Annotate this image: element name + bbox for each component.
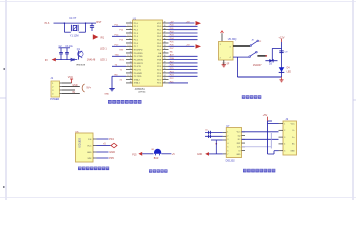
svg-text:15: 15 [130, 68, 132, 70]
capacitor C6 [205, 129, 210, 134]
svg-text:33: 33 [164, 45, 166, 47]
node junction sensor [216, 140, 218, 154]
port arrow 9V input [45, 58, 56, 62]
svg-text:TXD: TXD [115, 55, 120, 57]
svg-text:9V+: 9V+ [86, 85, 91, 89]
wire +12V vertical [281, 42, 283, 77]
capacitor C9 [279, 51, 288, 54]
svg-text:13: 13 [130, 62, 132, 64]
svg-text:8: 8 [130, 45, 131, 47]
svg-text:POWER: POWER [50, 98, 59, 101]
pin stubs voice module [93, 139, 97, 158]
svg-text:DS1302: DS1302 [226, 159, 236, 162]
power port VCC [68, 76, 73, 83]
wire U7 row3 short [242, 133, 272, 149]
wire GND row [62, 86, 80, 88]
svg-text:+5V: +5V [186, 45, 190, 47]
svg-text:26: 26 [164, 68, 166, 70]
svg-text:1: 1 [130, 22, 131, 24]
wires U1 right nets [169, 23, 198, 83]
svg-text:9: 9 [128, 55, 129, 57]
svg-text:1N4148: 1N4148 [87, 59, 96, 62]
transistor Q1 label [77, 49, 81, 51]
svg-text:P3.5/T1: P3.5/T1 [134, 69, 142, 71]
power port +5V (relay) [221, 31, 224, 42]
svg-text:36: 36 [164, 35, 166, 37]
svg-text:PSE: PSE [157, 59, 162, 61]
svg-text:(DIP40): (DIP40) [138, 92, 145, 94]
wire crystal top rail [64, 22, 85, 24]
wire sensor row2 [205, 135, 223, 137]
capacitor C2 [59, 48, 63, 60]
wire crystal right leg [85, 23, 87, 32]
svg-text:19: 19 [130, 82, 132, 84]
svg-text:GND: GND [72, 85, 77, 87]
mcu part number text [135, 88, 146, 94]
svg-text:GND: GND [109, 150, 115, 154]
net label LED1 lower [100, 59, 107, 62]
svg-text:17: 17 [130, 75, 132, 77]
wire filter top rail [59, 47, 71, 49]
wire sensor gnd row [209, 153, 223, 155]
wire switch lower out (thick) [257, 55, 267, 57]
capacitor C4 label [69, 17, 77, 20]
capacitor C2 label [59, 46, 63, 48]
svg-text:P3.3/INT1: P3.3/INT1 [134, 63, 144, 65]
net label 9V+ [86, 85, 91, 89]
pin stubs U1 left [126, 22, 133, 84]
pin stub relay bottom + ground [222, 60, 226, 67]
diode D3 1N4007 [265, 59, 277, 62]
wire sensor row1 [205, 132, 223, 134]
wire voice pin2 [97, 145, 111, 147]
svg-text:+5V: +5V [186, 21, 190, 23]
sheet zone mark B [3, 186, 5, 188]
sheet zone mark A [3, 68, 5, 70]
mcu U1 designator [133, 18, 137, 21]
svg-text:28: 28 [164, 62, 166, 64]
sheet zone tick left [0, 97, 6, 99]
wire VCC [62, 82, 72, 84]
wire diode up [272, 48, 281, 60]
ground (relay) [279, 77, 283, 82]
switch contact upper [250, 40, 258, 46]
svg-text:+5V: +5V [263, 113, 268, 117]
svg-text:39: 39 [164, 25, 166, 27]
relay model text [222, 63, 230, 65]
svg-text:5: 5 [227, 147, 228, 149]
svg-text:4: 4 [284, 144, 285, 146]
wire voice pin4 [97, 157, 109, 159]
svg-text:35: 35 [164, 38, 166, 40]
svg-text:VCC: VCC [87, 145, 92, 147]
connector J1 body [51, 81, 60, 97]
svg-text:27: 27 [164, 65, 166, 67]
svg-text:LED 1: LED 1 [100, 59, 107, 62]
svg-text:GND: GND [87, 152, 92, 154]
pin stubs J1 [60, 83, 63, 93]
net labels U1 left [115, 25, 129, 82]
connector J2 body [283, 121, 297, 155]
svg-text:P3.1/TXD: P3.1/TXD [134, 56, 143, 58]
svg-text:GND: GND [197, 154, 202, 156]
svg-text:1N4007: 1N4007 [253, 64, 262, 67]
pin stubs U7 right [242, 132, 246, 151]
wire +5V vertical (sensor) [268, 121, 273, 154]
net label buzzer P15 [132, 153, 137, 156]
capacitor C7 [209, 135, 211, 138]
net label LED1 upper [100, 48, 107, 51]
svg-text:RST: RST [96, 21, 101, 24]
svg-text:P34: P34 [109, 137, 114, 141]
svg-text:11: 11 [130, 55, 132, 57]
svg-text:VCC: VCC [157, 23, 162, 25]
svg-text:4: 4 [130, 32, 131, 34]
svg-text:4: 4 [230, 57, 231, 59]
svg-text:4: 4 [227, 143, 228, 145]
wire sensor row3 [211, 139, 223, 141]
wire U7 to J2 row1 [242, 131, 279, 133]
svg-text:25: 25 [164, 72, 166, 74]
svg-text:38: 38 [164, 28, 166, 30]
wire row4 [62, 92, 80, 94]
svg-text:SPK: SPK [87, 158, 92, 160]
part number text IRM [76, 64, 86, 66]
wires U1 left nets [112, 26, 126, 76]
voice module U6 body [76, 133, 94, 162]
svg-text:1: 1 [227, 132, 228, 134]
sheet border right [352, 0, 354, 200]
svg-text:GND: GND [104, 93, 109, 95]
svg-text:5: 5 [284, 151, 285, 153]
port arrow buzzer [138, 152, 142, 156]
pin stubs U1 right [163, 22, 169, 84]
relay U5 body [219, 42, 234, 61]
svg-text:RD: RD [115, 75, 119, 77]
svg-text:22: 22 [164, 82, 166, 84]
connector J2 designator [285, 117, 288, 121]
svg-text:9: 9 [130, 48, 131, 50]
svg-text:30: 30 [164, 55, 166, 57]
svg-text:23: 23 [164, 78, 166, 80]
capacitor C5 (reset) [90, 23, 94, 31]
wire row3 [62, 89, 75, 91]
net label +5V (crystal block) [45, 23, 50, 25]
sensor U7 body [226, 128, 241, 158]
caption relay block [242, 95, 261, 99]
wire crystal to RST [86, 22, 97, 24]
sensor U7 designator [226, 125, 230, 128]
wire J2 top pin [268, 123, 279, 125]
svg-text:Y1 12M: Y1 12M [70, 34, 79, 37]
caption sensor block [243, 169, 275, 173]
connector J1 caption POWER [50, 98, 59, 101]
svg-text:GND: GND [236, 154, 241, 156]
net label 1N4148 [87, 59, 96, 62]
net label 9V mid [72, 92, 75, 94]
svg-text:2: 2 [227, 135, 228, 137]
pin stubs U7 left [223, 133, 227, 154]
svg-text:6: 6 [130, 38, 131, 40]
svg-text:P1.6: P1.6 [45, 23, 50, 25]
wire to crystal loop [54, 22, 65, 24]
diode D3 designator [269, 64, 273, 66]
wire crystal left leg [63, 23, 65, 32]
wire relay bottom rail [237, 57, 281, 77]
wire voice pin3 [97, 151, 109, 153]
svg-text:P35: P35 [109, 156, 114, 160]
relay U5 designator [228, 38, 237, 41]
svg-text:10: 10 [130, 52, 132, 54]
power port +5V (voice) [103, 143, 117, 148]
svg-text:9: 9 [128, 35, 129, 37]
svg-text:LED: LED [287, 72, 292, 74]
net label GND [72, 85, 77, 87]
svg-text:IR1: IR1 [100, 36, 104, 39]
svg-text:1: 1 [220, 44, 221, 46]
svg-text:9: 9 [128, 65, 129, 67]
wire voice pin1 [97, 138, 109, 140]
wire U1 ground run [111, 76, 113, 88]
svg-text:29: 29 [164, 58, 166, 60]
crystal Y1 value label [70, 34, 79, 37]
capacitor C3 [65, 48, 69, 60]
svg-text:P3.4/T0: P3.4/T0 [134, 66, 142, 68]
LED D4 [279, 67, 292, 73]
svg-text:6: 6 [227, 150, 228, 152]
svg-text:14: 14 [130, 65, 132, 67]
svg-text:VCC: VCC [68, 76, 73, 79]
wire relay NO contact (thick) [233, 45, 250, 47]
op-amp U1 body AT89C51 [133, 20, 163, 86]
wire 9V rail [56, 59, 78, 61]
buzzer LS1 [154, 149, 161, 156]
svg-text:GND: GND [290, 151, 295, 153]
svg-text:P3.0/RXD: P3.0/RXD [134, 53, 143, 55]
switch label [251, 40, 262, 43]
svg-text:ALE: ALE [157, 55, 161, 58]
buzzer value label [154, 158, 159, 160]
sheet border top [0, 1, 356, 3]
capacitor C3 label [65, 46, 73, 48]
svg-text:9: 9 [128, 75, 129, 77]
sheet border left [5, 0, 7, 200]
sheet border bottom [0, 197, 356, 199]
svg-text:XTAL2: XTAL2 [134, 78, 141, 81]
svg-text:7: 7 [227, 154, 228, 156]
svg-text:31: 31 [164, 52, 166, 54]
net label voice GND [109, 150, 115, 154]
sheet zone tick right [353, 99, 356, 101]
svg-text:AT89C51: AT89C51 [135, 88, 146, 91]
port arrow IR input [93, 34, 105, 39]
net label buzzer +5 [172, 153, 175, 156]
svg-text:12: 12 [130, 58, 132, 60]
switch contact lower [249, 51, 257, 57]
transistor Q1 [78, 51, 84, 60]
svg-text:9: 9 [128, 45, 129, 47]
battery bracket [82, 84, 84, 92]
net label 1N4007 [253, 64, 262, 67]
net label voice P35 [109, 156, 114, 160]
buzzer designator [152, 149, 155, 151]
svg-text:9V: 9V [45, 59, 48, 62]
net labels U1 right [170, 21, 175, 83]
svg-text:34: 34 [164, 42, 166, 44]
svg-text:18: 18 [130, 78, 132, 80]
caption voice block [78, 167, 109, 171]
svg-text:1: 1 [284, 123, 285, 125]
svg-text:P3.2/INT0: P3.2/INT0 [134, 59, 144, 61]
svg-text:BUZ: BUZ [154, 158, 159, 160]
connector J1 designator [50, 76, 53, 80]
svg-text:16: 16 [130, 72, 132, 74]
svg-text:3: 3 [284, 137, 285, 139]
svg-text:3: 3 [130, 28, 131, 30]
port arrow sensor GND [197, 152, 209, 156]
voice module U6 designator [75, 131, 79, 134]
svg-text:C4 XT: C4 XT [69, 17, 77, 20]
crystal Y1 [71, 25, 78, 31]
caption mcu block [108, 100, 141, 104]
power port +5V (mcu top right) [186, 21, 201, 25]
svg-text:P3.7/RD: P3.7/RD [134, 76, 142, 78]
net label voice P34 [109, 137, 114, 141]
wire J2 bottom [268, 151, 279, 154]
svg-text:ISD1820: ISD1820 [79, 138, 82, 148]
wire buzzer right [161, 153, 171, 155]
svg-text:2: 2 [284, 130, 285, 132]
wire U7 to J2 row2 [242, 138, 279, 140]
svg-text:40: 40 [164, 22, 166, 24]
power port +12V [278, 35, 284, 42]
ground (mcu) [104, 89, 115, 96]
svg-text:3: 3 [230, 46, 231, 48]
svg-text:5: 5 [130, 35, 131, 37]
svg-text:LED 1: LED 1 [100, 48, 107, 51]
power port +5V (sensor) [263, 113, 268, 121]
svg-text:RST/VPD: RST/VPD [134, 49, 143, 51]
svg-text:IRM3638: IRM3638 [76, 64, 86, 66]
svg-text:P15: P15 [132, 153, 137, 156]
power port +5V (mcu mid right) [186, 44, 201, 48]
wire crystal bottom rail [64, 31, 85, 33]
svg-text:24: 24 [164, 75, 166, 77]
svg-text:2: 2 [220, 58, 221, 60]
svg-text:U5 JDQ: U5 JDQ [228, 38, 237, 41]
svg-text:32: 32 [164, 48, 166, 50]
wire buzzer left [142, 153, 153, 155]
svg-text:9: 9 [128, 25, 129, 27]
svg-text:3: 3 [227, 139, 228, 141]
wire relay pin2 [233, 56, 249, 58]
svg-text:P3.6/WR: P3.6/WR [134, 73, 143, 75]
node junction right [85, 22, 87, 24]
net label RST [96, 21, 101, 24]
svg-text:37: 37 [164, 32, 166, 34]
svg-text:2: 2 [130, 25, 131, 27]
caption buzzer block [149, 169, 168, 172]
svg-text:XTAL1: XTAL1 [134, 82, 141, 85]
node junction left [64, 22, 66, 24]
diode D1 [71, 58, 74, 61]
pin stubs J2 [279, 124, 284, 151]
sensor part label [226, 159, 236, 162]
svg-text:VCC: VCC [291, 123, 296, 125]
svg-text:7: 7 [130, 42, 131, 44]
